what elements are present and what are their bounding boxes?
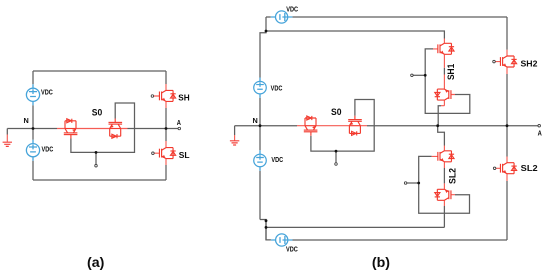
svg-text:VDC: VDC: [286, 5, 298, 14]
svg-text:A: A: [538, 129, 543, 138]
svg-text:SL2: SL2: [521, 164, 539, 173]
svg-text:SH1: SH1: [446, 64, 456, 80]
svg-text:SL2: SL2: [448, 168, 458, 184]
svg-text:VDC: VDC: [271, 83, 283, 92]
svg-text:(a): (a): [87, 255, 105, 271]
svg-text:VDC: VDC: [42, 144, 54, 153]
svg-text:N: N: [24, 116, 29, 125]
svg-text:SL: SL: [179, 150, 190, 160]
svg-text:SH2: SH2: [521, 60, 538, 69]
svg-text:S0: S0: [331, 107, 342, 117]
svg-text:N: N: [253, 116, 258, 125]
svg-text:VDC: VDC: [41, 88, 53, 97]
svg-text:(b): (b): [372, 255, 390, 271]
svg-text:VDC: VDC: [271, 155, 283, 164]
svg-text:VDC: VDC: [286, 244, 298, 253]
svg-text:A: A: [177, 118, 182, 127]
svg-text:SH: SH: [178, 93, 189, 103]
svg-text:S0: S0: [92, 107, 103, 117]
